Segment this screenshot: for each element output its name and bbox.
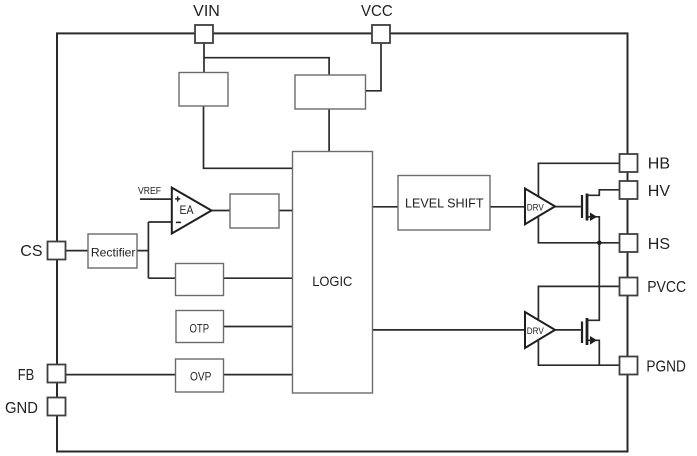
svg-text:OTP: OTP [190,322,210,336]
pin PVCC [620,278,638,296]
block box D (sense) [176,264,224,296]
wire DRV1 output to Q1 gate [555,206,581,208]
junction HS node [597,241,602,246]
pin HB [620,154,638,172]
wire OTP to LOGIC [224,326,293,328]
wire HS node down to Q2 drain [588,243,600,320]
wire DRV1 bottom rail to HS node [538,218,619,243]
block Rectifier [88,234,137,268]
wire LOGIC to LEVEL SHIFT [373,206,399,208]
svg-text:PGND: PGND [646,358,686,375]
wire Q1 source down to HS node [588,217,599,243]
svg-text:LOGIC: LOGIC [312,273,352,289]
svg-text:FB: FB [18,367,35,384]
pin GND [48,398,66,416]
buffer DRV1 (high-side driver) [525,189,555,225]
svg-text:EA: EA [180,205,194,217]
wire VIN branch to box B [204,58,329,75]
svg-text:HS: HS [648,236,670,253]
svg-text:DRV: DRV [527,202,545,212]
svg-text:HV: HV [648,183,671,200]
block OVP [176,359,224,392]
pin VIN [195,25,213,43]
block box A (preregulator) [179,73,228,107]
svg-text:PVCC: PVCC [647,279,686,296]
wire box B to LOGIC top [328,109,330,152]
block box B (supply) [295,75,366,109]
svg-text:Rectifier: Rectifier [91,245,136,259]
svg-text:GND: GND [5,400,38,417]
svg-text:VIN: VIN [193,3,220,20]
svg-text:HB: HB [648,156,670,173]
wire Q2 source down to PGND rail [588,340,599,365]
svg-text:VCC: VCC [361,3,393,20]
block OTP [176,311,224,343]
wire LEVEL SHIFT to DRV1 [490,206,525,208]
wire VCC down-left into box B [366,42,382,91]
wire CS pin to Rectifier [66,250,89,252]
pin CS [48,242,66,260]
svg-text:CS: CS [20,243,42,260]
IC outer boundary [57,33,628,451]
wire box D to LOGIC [224,277,293,279]
block box C (EA output filter) [230,194,279,228]
block LOGIC [293,152,373,394]
wire OVP to LOGIC [224,374,293,376]
svg-text:LEVEL SHIFT: LEVEL SHIFT [405,196,484,210]
wire VIN stub down into box A [203,42,205,73]
transistor Q2 (low-side MOSFET) [582,318,597,345]
op-amp EA error amplifier [172,188,212,234]
pin FB [48,365,66,383]
svg-text:VREF: VREF [138,186,161,197]
wire DRV1 top rail to HB pin [538,163,619,196]
wire box C to LOGIC [279,210,293,212]
wire VREF into EA + input [140,198,172,200]
wire DRV2 output to Q2 gate [555,329,581,331]
svg-text:OVP: OVP [190,369,211,383]
pin HS [620,234,638,252]
wire Q1 drain to HV pin [588,190,620,196]
wire EA output to box C [212,210,231,212]
buffer DRV2 (low-side driver) [525,312,555,348]
pin HV [620,181,638,199]
wire DRV2 bottom rail to PGND pin [538,341,619,365]
wire box A to LOGIC left [204,106,293,168]
wire Rectifier output branch to EA - input and box D [137,222,176,278]
pin PGND [620,357,638,375]
pin VCC [372,25,390,43]
svg-text:DRV: DRV [527,326,545,336]
wire DRV2 top rail to PVCC pin [538,286,619,319]
transistor Q1 (high-side MOSFET) [582,194,597,222]
block LEVEL SHIFT [398,176,490,231]
wire FB pin to OVP [66,374,176,376]
wire LOGIC to DRV2 [373,329,526,331]
